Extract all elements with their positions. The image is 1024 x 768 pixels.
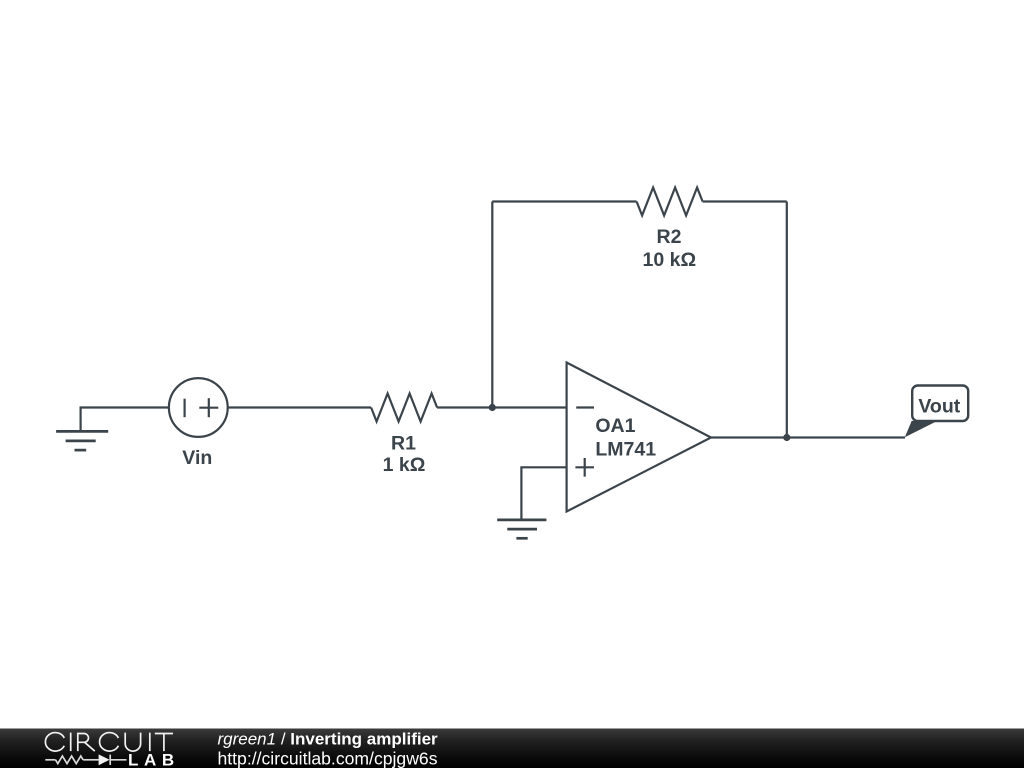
logo CIRCUIT letter C <box>45 733 173 752</box>
logo CIRCUIT letter C <box>100 733 119 752</box>
wire: feedback top left segment <box>492 200 636 202</box>
resistor R1 <box>371 394 437 422</box>
svg-text:LAB: LAB <box>128 751 180 768</box>
ground (op-amp non-inverting input) <box>497 520 546 538</box>
svg-text:Vout: Vout <box>918 396 960 418</box>
logo resistor-diode line <box>45 755 126 765</box>
svg-text:R1: R1 <box>391 433 416 455</box>
voltage source V1 (Vin) <box>169 378 228 437</box>
svg-text:10 kΩ: 10 kΩ <box>643 249 697 271</box>
op-amp plus symbol <box>575 458 594 477</box>
logo diode triangle <box>99 754 110 765</box>
node junction (output node) <box>783 434 790 441</box>
resistor R2 <box>637 188 703 216</box>
op-amp OA1 <box>567 363 711 512</box>
wire: feedback right vertical down to output <box>786 202 788 438</box>
wire: non-inverting input to ground <box>521 467 566 520</box>
svg-text:OA1: OA1 <box>595 415 635 437</box>
wire: V1 to R1 <box>228 406 371 408</box>
wire: ground to V1 negative terminal <box>81 408 169 432</box>
logo CIRCUIT letter I <box>149 733 151 752</box>
node junction (inverting input node) <box>489 404 496 411</box>
ground (left, at V1 negative) <box>56 431 108 450</box>
svg-text:1 kΩ: 1 kΩ <box>383 454 426 476</box>
logo CIRCUIT letter R <box>78 734 95 752</box>
logo CIRCUIT letter U <box>125 733 140 751</box>
svg-text:http://circuitlab.com/cpjgw6s: http://circuitlab.com/cpjgw6s <box>218 749 438 768</box>
wire: op-amp output <box>711 436 905 438</box>
wire: junction up to feedback <box>491 202 493 408</box>
op-amp minus symbol <box>576 406 594 408</box>
wire: feedback top right segment <box>703 200 787 202</box>
wire: R1 to op-amp inverting input <box>437 406 566 408</box>
svg-text:R2: R2 <box>657 226 682 248</box>
flag Vout tail <box>905 421 938 437</box>
flag Vout box <box>912 386 968 422</box>
footer bar <box>0 729 1024 768</box>
svg-text:Vin: Vin <box>182 447 212 469</box>
svg-text:LM741: LM741 <box>595 438 656 460</box>
svg-text:rgreen1 / Inverting amplifier: rgreen1 / Inverting amplifier <box>218 730 439 749</box>
logo CIRCUIT letter T <box>155 734 173 752</box>
logo CIRCUIT letter I <box>70 733 72 752</box>
